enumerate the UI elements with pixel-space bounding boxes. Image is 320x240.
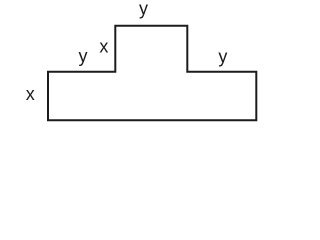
svg-text:y: y (79, 46, 88, 66)
svg-text:x: x (26, 84, 35, 104)
svg-text:y: y (218, 46, 227, 66)
svg-text:y: y (139, 0, 148, 19)
svg-text:x: x (99, 37, 108, 57)
shape outline (composite rectangle: wide base with smaller rectangle on top) (48, 26, 256, 121)
